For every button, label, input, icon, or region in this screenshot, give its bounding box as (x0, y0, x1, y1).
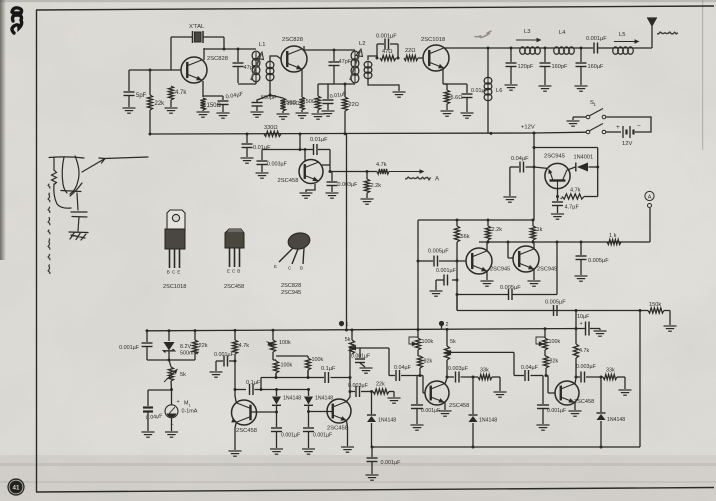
wire emitter Q4 (306, 184, 315, 192)
wire left column (128, 70, 130, 91)
wire Q4 base (304, 150, 306, 162)
svg-text:47pF: 47pF (339, 59, 352, 65)
svg-text:1N4148: 1N4148 (378, 418, 396, 424)
wire collector Q11 (575, 377, 576, 384)
wire (318, 83, 334, 85)
svg-text:41: 41 (13, 485, 20, 492)
capacitor 0.001uF (270, 428, 300, 454)
ground (439, 411, 452, 416)
resistor 150ohm (277, 98, 300, 119)
svg-text:L1: L1 (259, 42, 265, 48)
wire Q10 base (420, 376, 425, 394)
svg-text:0.005µF: 0.005µF (588, 258, 609, 264)
resistor 150k (648, 302, 670, 313)
svg-text:2SC458: 2SC458 (449, 403, 469, 409)
zener diode 8.2V 500mW (164, 331, 200, 360)
capacitor 0.005uF feedback2 (545, 300, 566, 317)
page number badge 41 (7, 478, 24, 495)
svg-text:5k: 5k (450, 339, 456, 345)
wire (418, 57, 423, 59)
potentiometer 5k (345, 330, 356, 354)
ground (619, 390, 632, 395)
crystal X'TAL (171, 24, 224, 43)
capacitor 0.005uF (575, 242, 610, 281)
capacitor 0.001uF (119, 331, 152, 360)
resistor 5.6ohm (444, 90, 462, 104)
wire (261, 376, 310, 379)
wire emitter Q3 (442, 69, 444, 84)
transformer secondary T1 (266, 61, 274, 80)
resistor 330ohm on rail (264, 125, 281, 137)
svg-text:2SC945: 2SC945 (490, 267, 510, 273)
wire collector Q8 (235, 390, 236, 403)
svg-text:33k: 33k (606, 368, 615, 374)
inductor L2 (350, 41, 365, 83)
wire audio supply rail (146, 327, 586, 332)
svg-text:4.7µF: 4.7µF (565, 205, 580, 211)
terminal A (645, 191, 654, 207)
wire base Q9 (307, 410, 333, 413)
svg-text:5pF: 5pF (136, 93, 147, 99)
capacitor 0.01uF coupling Q4 (310, 137, 330, 155)
wire (128, 96, 130, 107)
svg-text:2SC458: 2SC458 (278, 178, 299, 184)
svg-text:22k: 22k (155, 101, 166, 107)
capacitor 0.003uF (576, 364, 603, 383)
svg-text:0.003µF: 0.003µF (576, 364, 597, 370)
svg-text:4.7k: 4.7k (579, 348, 589, 354)
inductor L6 (484, 48, 502, 134)
transistor Q7 2SC945 (513, 246, 557, 273)
ground (441, 111, 454, 116)
ground (569, 411, 582, 416)
potentiometer 5k (444, 329, 456, 378)
wire collector Q4 (322, 165, 330, 172)
wire (368, 56, 377, 60)
svg-text:160µF: 160µF (588, 64, 605, 70)
label to point A (thai) (405, 176, 440, 183)
svg-text:0.003µF: 0.003µF (448, 366, 469, 372)
svg-text:12V: 12V (622, 141, 632, 147)
wire (170, 37, 172, 70)
wire (509, 167, 511, 196)
svg-text:0.001µF: 0.001µF (381, 460, 402, 466)
svg-text:B: B (167, 270, 170, 275)
wire (574, 47, 593, 50)
svg-text:2SC458: 2SC458 (224, 284, 244, 290)
wire collector Q9 (346, 348, 352, 402)
resistor 22k (147, 95, 165, 110)
wire (269, 80, 272, 97)
svg-text:160pF: 160pF (552, 64, 568, 70)
wire emitter Q8 (235, 422, 236, 450)
wire +12V riser right (533, 133, 536, 220)
transistor Q4 2SC458 (278, 160, 324, 185)
wire (260, 378, 262, 390)
wire (202, 110, 204, 111)
svg-text:150Ω: 150Ω (302, 99, 316, 105)
wire (376, 44, 378, 58)
pencil doodle arrow (475, 31, 491, 38)
wire (299, 134, 301, 150)
resistor 4.7k (232, 330, 249, 389)
wire collector Q2 (303, 46, 305, 50)
wire to point A (389, 169, 425, 173)
capacitor 120pF (505, 48, 534, 90)
ground (165, 432, 178, 437)
ground (217, 113, 230, 118)
wire emitter Q6 (486, 271, 488, 280)
svg-text:1N4148: 1N4148 (607, 417, 625, 423)
capacitor 47pF tank1 (233, 63, 257, 71)
svg-text:L3: L3 (524, 29, 530, 35)
wire (649, 208, 651, 242)
svg-text:2SC1018: 2SC1018 (421, 37, 445, 43)
ground (528, 281, 541, 286)
wire (329, 150, 331, 166)
svg-text:100k: 100k (279, 340, 291, 346)
node (397, 57, 400, 60)
svg-text:4.7k: 4.7k (376, 162, 387, 168)
ground (197, 112, 210, 117)
resistor 82k (417, 356, 432, 377)
capacitor 4.7uF electrolytic (551, 196, 579, 219)
capacitor 0.001uF coupling (376, 34, 398, 50)
capacitor 500pF (251, 95, 277, 117)
wire tank2 bottom (334, 83, 355, 86)
wire (450, 351, 514, 353)
wire +12V rail (149, 132, 536, 136)
svg-text:4.7k: 4.7k (175, 90, 187, 96)
wire zener bus (147, 359, 195, 362)
wire bottom rail (371, 446, 641, 449)
wire emitter feed Q5 (534, 167, 547, 168)
resistor 2.2k (485, 220, 502, 242)
wire (513, 352, 515, 375)
wire collector Q3 (443, 47, 445, 49)
capacitor 0.1uF (246, 380, 277, 395)
wire tank1 bottom (238, 80, 256, 84)
diode 1N4148 (597, 376, 626, 448)
wire Q7 base (508, 242, 513, 258)
svg-text:L4: L4 (559, 30, 566, 36)
svg-text:22Ω: 22Ω (405, 48, 415, 54)
tie point 1 (339, 321, 349, 328)
label +12V (521, 125, 535, 131)
svg-text:0.003µF: 0.003µF (338, 182, 359, 188)
resistor 4.7k (168, 86, 187, 100)
capacitor 160pF (575, 48, 605, 91)
wire (344, 84, 346, 134)
svg-text:1N4148: 1N4148 (315, 396, 333, 402)
resistor 22k (373, 382, 394, 395)
svg-text:1N4001: 1N4001 (574, 155, 594, 161)
svg-text:1N4148: 1N4148 (283, 396, 301, 402)
svg-text:150k: 150k (649, 302, 661, 308)
svg-text:56k: 56k (461, 234, 470, 240)
svg-text:0.001µF: 0.001µF (351, 354, 370, 360)
wire (669, 311, 671, 326)
svg-text:2SC828: 2SC828 (207, 56, 228, 62)
wire (393, 392, 395, 398)
potentiometer 100k (409, 330, 433, 356)
svg-text:2SC945: 2SC945 (544, 154, 565, 160)
wire (148, 388, 173, 391)
antenna (647, 18, 657, 27)
wire collector bus Q8 (234, 388, 247, 391)
svg-text:22k: 22k (376, 382, 385, 388)
resistor 4.7k (376, 162, 389, 174)
diode 1N4001 (567, 155, 598, 172)
ground (142, 432, 155, 437)
capacitor 0.001uF (351, 348, 373, 373)
svg-text:5.6Ω: 5.6Ω (451, 95, 463, 101)
diode 1N4148 clamp (304, 390, 333, 428)
transistor Q10 2SC458 (425, 381, 469, 409)
inductor L5 (613, 32, 640, 54)
ground (494, 392, 507, 397)
svg-text:0.005µF: 0.005µF (500, 285, 521, 291)
wire (276, 370, 308, 378)
svg-text:L6: L6 (496, 88, 502, 94)
svg-text:330Ω: 330Ω (264, 125, 278, 131)
wire emitter Q10 (444, 402, 446, 410)
wire emitter Q11 (574, 402, 576, 410)
svg-text:82k: 82k (424, 359, 433, 365)
transistor Q8 2SC458 (mirrored) (231, 400, 257, 434)
transistor Q2 2SC828 (281, 37, 307, 72)
diode 1N4148 clamp (272, 390, 301, 428)
node (329, 170, 332, 173)
wire (417, 220, 420, 331)
wire (237, 49, 239, 62)
wire (301, 110, 303, 112)
resistor 33k (603, 368, 625, 380)
inductor L4 (554, 30, 575, 54)
capacitor 0.003uF (348, 383, 373, 397)
svg-text:0-1mA: 0-1mA (182, 409, 198, 415)
svg-text:22Ω: 22Ω (349, 102, 359, 108)
resistor 82k (543, 356, 558, 377)
wire (598, 47, 613, 49)
node junction (149, 69, 152, 72)
wire collector Q7 (533, 242, 535, 249)
svg-text:0.1µF: 0.1µF (246, 380, 261, 386)
svg-text:A: A (648, 195, 652, 201)
transistor Q6 2SC945 (466, 248, 510, 274)
capacitor 0.005uF (428, 249, 466, 267)
wire (149, 110, 151, 134)
ground (296, 113, 309, 118)
ground (300, 193, 313, 198)
capacitor 5pF (124, 92, 147, 99)
svg-text:0.04µF: 0.04µF (521, 365, 539, 371)
wire (317, 84, 319, 113)
svg-text:47Ω: 47Ω (382, 49, 392, 55)
capacitor 160pF (539, 48, 568, 91)
capacitor 0.001uF (302, 428, 332, 454)
wire base Q8 (251, 411, 279, 414)
wire (443, 84, 447, 110)
wire Q4 top bus (262, 148, 313, 151)
svg-text:B: B (237, 269, 240, 274)
wire (397, 44, 399, 58)
wire (355, 347, 389, 349)
wire (237, 67, 239, 83)
battery 12V (606, 117, 651, 147)
resistor 22k zener (192, 331, 207, 360)
wire (388, 348, 390, 376)
resistor 150ohm Q1 emitter (200, 98, 221, 110)
svg-text:2SC458: 2SC458 (574, 399, 594, 405)
potentiometer 5k (164, 360, 186, 390)
wire clamp bus (275, 388, 310, 391)
wire RF out bus (444, 47, 520, 50)
wire tank1 top (204, 48, 256, 51)
svg-text:2SC945: 2SC945 (281, 290, 301, 296)
svg-text:5k: 5k (345, 337, 351, 343)
wire emitter Q7 (533, 269, 535, 280)
ground (388, 398, 401, 403)
svg-text:−: − (637, 123, 641, 130)
capacitor 0.003uF Q4 out (326, 172, 359, 199)
transformer secondary T2 (364, 61, 372, 78)
resistor 47ohm (380, 49, 396, 61)
wire (276, 356, 308, 358)
svg-text:0.003µF: 0.003µF (348, 383, 369, 389)
capacitor 0.1uF (308, 366, 352, 383)
capacitor 10uF electrolytic rail (577, 314, 607, 336)
svg-text:0.001µF: 0.001µF (313, 433, 332, 439)
svg-text:8.2V: 8.2V (180, 344, 191, 350)
resistor 150ohm Q2 emitter (283, 97, 305, 110)
package 2SC828 2SC945 (274, 231, 311, 296)
package 2SC458 (224, 229, 244, 290)
svg-text:1 k: 1 k (609, 233, 617, 239)
margin caption (rotated thai text) (48, 184, 50, 274)
capacitor 0.001uF (411, 376, 441, 431)
svg-text:0.001µF: 0.001µF (376, 34, 397, 40)
wire (170, 100, 172, 107)
svg-text:100k: 100k (312, 357, 324, 363)
ground (361, 199, 374, 204)
capacitor 0.003uF (447, 366, 478, 383)
svg-text:0.1µF: 0.1µF (321, 366, 336, 372)
svg-text:L2: L2 (359, 41, 365, 47)
wire (222, 105, 224, 112)
svg-text:1N4148: 1N4148 (479, 418, 497, 424)
svg-text:120pF: 120pF (518, 64, 534, 70)
capacitor 0.04uF meter (143, 390, 164, 431)
ground (165, 108, 178, 113)
potentiometer 100k (267, 330, 291, 360)
svg-text:150Ω: 150Ω (283, 100, 297, 106)
svg-text:+: + (616, 124, 620, 131)
svg-text:0.001µF: 0.001µF (421, 408, 440, 414)
svg-text:0.01µF: 0.01µF (310, 137, 328, 143)
wire (596, 148, 599, 197)
svg-text:0.001µF: 0.001µF (119, 345, 140, 351)
wire base Q5 (556, 189, 559, 199)
resistor 56k (454, 220, 469, 311)
wire (624, 377, 626, 389)
wire audio out bus (330, 170, 377, 173)
svg-text:2.2k: 2.2k (371, 183, 382, 189)
resistor 100k (305, 357, 323, 378)
resistor 33k (478, 368, 500, 380)
svg-text:100k: 100k (549, 339, 561, 345)
wire emitter bus (203, 95, 223, 97)
capacitor 0.01uF (322, 84, 348, 116)
capacitor 0.001uF (537, 376, 567, 431)
svg-text:4.7k: 4.7k (570, 188, 581, 194)
transistor Q9 2SC458 (327, 399, 351, 432)
svg-text:0.003µF: 0.003µF (267, 162, 288, 168)
magazine logo top-left (12, 8, 22, 33)
capacitor 0.001uF bottom (366, 447, 402, 480)
svg-text:5k: 5k (180, 372, 186, 378)
svg-text:100k: 100k (422, 339, 434, 345)
svg-text:2SC828: 2SC828 (282, 37, 303, 43)
svg-text:0.005µF: 0.005µF (428, 249, 449, 255)
capacitor 0.04uF coupling3 (514, 365, 543, 381)
svg-text:L5: L5 (619, 32, 625, 38)
svg-text:+: + (560, 196, 563, 202)
ground (503, 197, 516, 202)
capacitor 0.04uF coupling2 (389, 365, 420, 381)
wire tank2 top (304, 49, 355, 52)
wire (368, 78, 399, 91)
svg-text:X'TAL: X'TAL (189, 24, 205, 30)
svg-text:B: B (300, 266, 303, 271)
resistor 1k collector bus (607, 233, 621, 245)
resistor 4.7k Q5 (562, 188, 598, 200)
transistor Q3 2SC1018 (421, 37, 449, 71)
wire (270, 56, 281, 62)
capacitor 0.04uF modulator (510, 156, 534, 173)
node (376, 57, 379, 60)
svg-text:2.2k: 2.2k (492, 227, 503, 233)
wire +12V riser (346, 134, 348, 331)
resistor 150ohm (302, 96, 320, 110)
wire (333, 66, 335, 84)
wire (540, 47, 554, 50)
transistor Q11 2SC458 (555, 381, 594, 405)
svg-text:0.001µF: 0.001µF (436, 268, 457, 274)
svg-text:C: C (288, 266, 291, 271)
diode 1N4148 (367, 392, 396, 448)
wire (441, 326, 443, 330)
capacitor 0.003uF (256, 150, 288, 179)
inductor L3 (516, 29, 542, 54)
capacitor 0.001uF Q6 (430, 268, 459, 296)
wire (333, 50, 335, 61)
svg-text:0.04µF: 0.04µF (394, 365, 412, 371)
ground (123, 108, 136, 113)
transistor Q5 2SC945 (544, 154, 570, 189)
wire antenna lead (633, 26, 652, 48)
svg-text:+: + (177, 399, 180, 405)
capacitor 0.001uF input (210, 352, 237, 377)
hand sketch transistor doodle (49, 156, 148, 240)
svg-text:33k: 33k (480, 368, 489, 374)
wire (270, 95, 283, 98)
resistor 100k (273, 360, 292, 378)
resistor 22ohm (404, 48, 418, 61)
svg-text:22k: 22k (199, 343, 208, 349)
wire mid rail (418, 219, 535, 222)
wire emitter Q9 (346, 420, 347, 446)
